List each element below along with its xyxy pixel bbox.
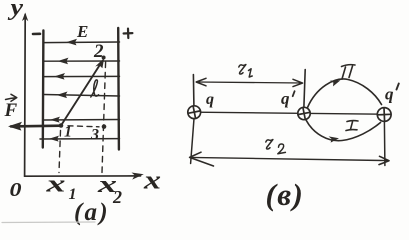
- dashed segment 1-3: [68, 126, 99, 127]
- connecting line q to q': [196, 112, 382, 114]
- svg-text:q: q: [385, 85, 394, 104]
- svg-text:x: x: [45, 172, 66, 198]
- r1 arrow: [196, 78, 302, 86]
- charge q' right: [377, 108, 391, 122]
- scan artifact line: [2, 221, 95, 224]
- charge q' middle: [298, 107, 310, 119]
- label q' right: [385, 84, 399, 104]
- label q' middle: [281, 89, 295, 108]
- field line 5: [44, 117, 120, 123]
- force arrow F: [8, 122, 61, 131]
- svg-text:q: q: [206, 91, 214, 108]
- path I arc: [306, 120, 381, 143]
- x2 label: [96, 172, 122, 207]
- label I: [346, 121, 358, 131]
- dashed drop line x2: [102, 62, 106, 173]
- x1 label: [45, 172, 77, 204]
- svg-text:E: E: [76, 22, 88, 41]
- svg-text:y: y: [7, 0, 23, 21]
- point 2 dot: [102, 56, 106, 60]
- svg-text:3: 3: [90, 127, 99, 144]
- path length label l: [91, 80, 99, 97]
- field line 2: [44, 58, 120, 65]
- tick above q: [192, 75, 195, 106]
- drop line below q: [191, 119, 194, 164]
- field line 4: [44, 92, 120, 99]
- trajectory line 1-2: [61, 58, 104, 126]
- x-axis: [25, 173, 144, 180]
- svg-text:2: 2: [93, 41, 104, 62]
- charge q: [188, 106, 201, 119]
- minus sign: [33, 32, 40, 35]
- svg-text:F: F: [4, 100, 18, 121]
- point 3 dot: [102, 124, 107, 129]
- plus sign: [124, 29, 133, 38]
- svg-text:q: q: [281, 89, 290, 108]
- tick above q' middle: [304, 70, 305, 108]
- svg-text:x: x: [143, 166, 161, 195]
- drop line below q' right: [383, 122, 386, 166]
- y-axis: [22, 13, 28, 177]
- dashed drop line x1: [59, 131, 61, 173]
- r2 label: [266, 140, 286, 154]
- positive plate: [117, 28, 120, 150]
- field line 6: [40, 136, 120, 142]
- svg-text:0: 0: [10, 179, 22, 201]
- point 1 dot: [59, 123, 64, 128]
- r1 label: [239, 65, 252, 78]
- label II: [342, 65, 356, 79]
- field line 3: [44, 73, 120, 80]
- svg-text:(в): (в): [266, 177, 305, 212]
- svg-text:2: 2: [112, 187, 122, 207]
- r2 arrow: [190, 152, 389, 166]
- field line 1: [44, 39, 120, 46]
- negative plate: [42, 31, 45, 148]
- force label F vector: [4, 94, 18, 121]
- path II arc: [308, 79, 382, 107]
